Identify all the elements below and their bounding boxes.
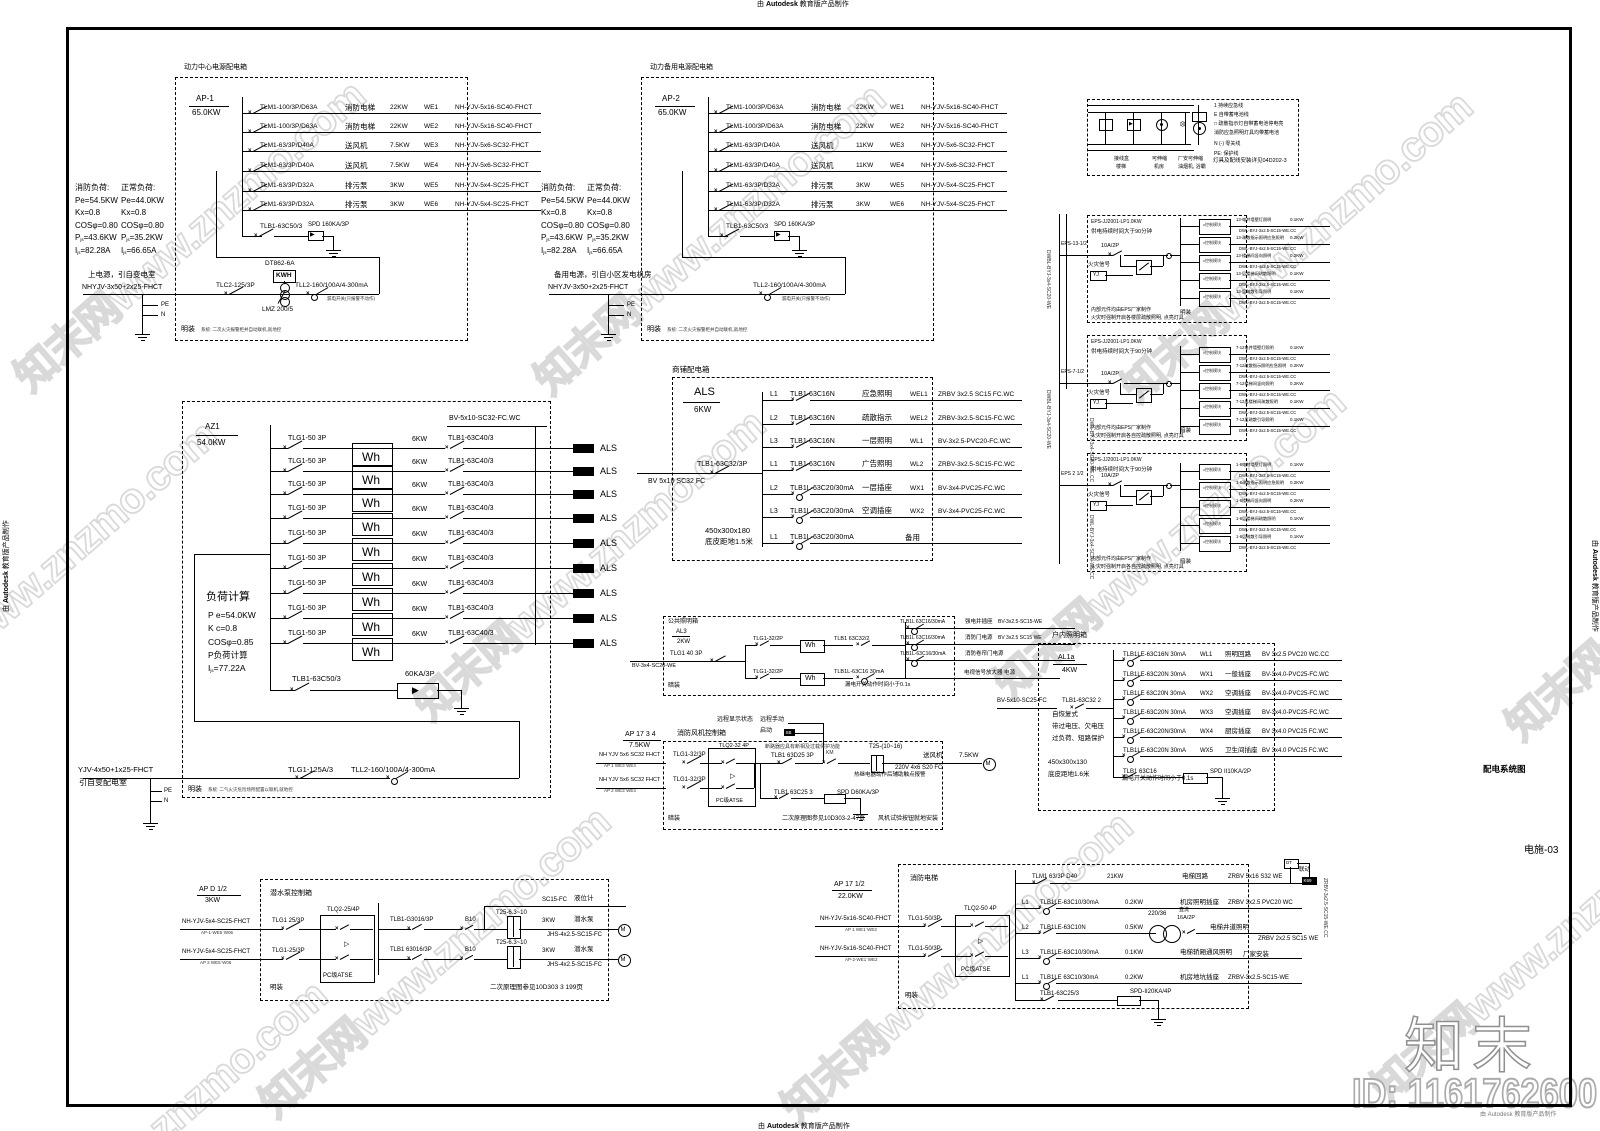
ATSE PC级 fan panel	[708, 748, 756, 807]
incoming wire 2 elevator	[815, 956, 925, 957]
wire row 9	[391, 643, 445, 644]
breaker TLB1-63C16N circuit WEL1	[770, 391, 778, 398]
breaker TLB1-63C32/3P	[697, 461, 747, 468]
pump branch 1	[378, 929, 411, 930]
riser line AZ1	[535, 427, 536, 645]
EPS panel EPS-7-1/2 enclosure	[1087, 335, 1247, 441]
EPS inverter module EPS 2 1/2	[1120, 485, 1121, 496]
bus AP-2	[708, 97, 709, 236]
wire row 4	[391, 518, 445, 519]
edge note bottom right	[1480, 1112, 1556, 1118]
EPS control module EPS 2 1/2 row 3	[1180, 507, 1199, 508]
breaker TLB1-63C40/3 row 5	[448, 530, 494, 537]
kWh meter row 1	[352, 443, 393, 466]
note AP-2	[647, 326, 661, 333]
breaker TLM1-100/3P/D63A circuit WE1	[260, 105, 317, 112]
EPS distribution bus EPS-13-1/2	[1180, 218, 1181, 306]
note AZ1	[188, 786, 202, 793]
breaker TLB1L 63C16/30mA AL3	[900, 620, 945, 625]
breaker TLG1-125A/3	[288, 766, 333, 774]
kWh meter row 3	[352, 489, 393, 512]
fire signal input EPS 2 1/2	[1088, 493, 1110, 499]
wire circuit WE5	[708, 191, 1007, 192]
kWh meter row 8	[352, 613, 393, 636]
kWh meter row 7	[352, 588, 393, 611]
wire row 1	[391, 448, 445, 449]
EPS control module EPS-7-1/2 row 2	[1180, 372, 1199, 373]
breaker TLB1-63C40/3 row 9	[448, 630, 494, 637]
feeder row 8 breaker TLG1-50 3P	[288, 605, 326, 612]
breaker TLB1LE-63C10N elevator row	[1022, 925, 1029, 931]
EPS circuit wire EPS-7-1/2 row 1	[1229, 354, 1330, 355]
breaker TLM1-63/3P/D40A circuit WE4	[260, 163, 314, 170]
ALS terminal row 2	[573, 467, 594, 476]
breaker TLB1-63C40/3 row 7	[448, 580, 494, 587]
ATSE PC级 elevator	[955, 915, 1010, 977]
incoming wire AP-2	[549, 294, 845, 295]
feeder row 6 breaker TLG1-50 3P	[288, 555, 326, 562]
feeder row 3 breaker TLG1-50 3P	[288, 481, 326, 488]
breaker TLB1-63C40/3 row 2	[448, 458, 494, 465]
EPS inverter module EPS-7-1/2	[1120, 383, 1121, 394]
kWh meter row 6	[352, 563, 393, 586]
bus AL3 outputs	[905, 622, 906, 678]
EPS control module EPS-7-1/2 row 3	[1180, 390, 1199, 391]
breaker TLB1-63C50/3 SPD feed AP-2	[726, 224, 768, 231]
wire circuit WE6	[242, 210, 541, 211]
panel 潜水泵控制箱 enclosure	[260, 879, 609, 1001]
title 电施-03	[1524, 846, 1558, 856]
breaker TLG1-50/3P elevator 2	[908, 946, 941, 952]
incoming wire AP-1	[83, 294, 379, 295]
ALS terminal row 6	[573, 564, 594, 573]
wire circuit WX2	[762, 517, 793, 518]
label AL1a	[1058, 654, 1074, 661]
edge note top	[757, 1, 849, 8]
breaker TLM1-63/3P/D40A circuit WE4	[726, 163, 780, 170]
wire circuit WEL2	[762, 424, 793, 425]
breaker TLB1 63C16 SPD feed AL1a	[1123, 769, 1157, 775]
load calc text AP-1	[75, 184, 109, 192]
wire AP-1 meter loop	[216, 171, 217, 257]
wire elevator row	[1015, 933, 1040, 934]
breaker TLB1-63C50/3 AZ1	[292, 675, 341, 683]
breaker TLB1-63C16N circuit WEL2	[770, 415, 778, 422]
motor M fan	[983, 758, 996, 771]
label AL3	[676, 629, 687, 635]
breaker TLB1LE-63C10/30mA elevator row	[1022, 950, 1029, 956]
label BV-5x10-SC32-FC.WC	[449, 415, 521, 422]
EPS circuit wire EPS 2 1/2 row 4	[1229, 525, 1330, 526]
breaker TLB1-63C16N circuit WL2	[770, 461, 778, 468]
breaker TLM1-100/3P/D63A circuit WE2	[260, 124, 317, 131]
thermal relay T25-(10~16)	[869, 744, 902, 750]
ground AP-1 SPD	[333, 242, 334, 250]
wire AL3 output	[905, 660, 1075, 661]
breaker TLB1L 63C16/30mA AL3	[900, 636, 945, 641]
breaker 10A/2P EPS-13-1/2	[1101, 244, 1119, 250]
label AP 17 3 4	[625, 731, 656, 738]
wire circuit WL2	[762, 470, 793, 471]
breaker TLG1-32/3P fan 1	[673, 752, 706, 758]
SPD 160KA/3P AP-2	[774, 222, 815, 228]
breaker TLB1-63C40/3 row 4	[448, 505, 494, 512]
label AP-1	[196, 95, 214, 103]
edge note left	[3, 520, 10, 612]
wire circuit WX3	[1113, 718, 1124, 719]
breaker 10A/2P EPS-7-1/2	[1101, 372, 1119, 378]
EPS control module EPS 2 1/2 row 2	[1180, 489, 1199, 490]
breaker TLB1-63C40/3 row 8	[448, 605, 494, 612]
panel AZ1 enclosure	[182, 401, 551, 798]
current transformers LMZ 200/5	[280, 283, 290, 293]
wire row 6	[391, 568, 445, 569]
incoming wire 1 pump	[180, 929, 283, 930]
legend symbol junction box	[1105, 112, 1106, 144]
EPS control module EPS-13-1/2 row 5	[1180, 298, 1199, 299]
EPS control module EPS 2 1/2 row 5	[1180, 543, 1199, 544]
EPS control module EPS-13-1/2 row 2	[1180, 244, 1199, 245]
label AP-2	[662, 95, 680, 103]
breaker TLB1-63C16N circuit WL1	[770, 438, 778, 445]
leakage breaker TLL2-160/100A/4-300mA AZ1	[351, 766, 435, 774]
breaker TLG1-25/3P pump 2	[272, 948, 305, 954]
panel 消防风机控制箱 enclosure	[663, 741, 943, 830]
incoming wire AZ1	[83, 778, 390, 779]
ALS terminal row 4	[573, 514, 594, 523]
breaker TLB1-63C32 2	[1062, 698, 1101, 704]
split AL3	[745, 645, 746, 678]
PE N ground AP-2	[608, 294, 609, 326]
EPS circuit wire EPS 2 1/2 row 3	[1229, 507, 1330, 508]
breaker TLB1LE-63C16N 30mA circuit WL1	[1123, 652, 1186, 658]
incoming wire 2 pump	[180, 959, 283, 960]
title 配电系统图	[1483, 765, 1526, 774]
EPS control module EPS-13-1/2 row 4	[1180, 280, 1199, 281]
fire signal input EPS-13-1/2	[1088, 263, 1110, 269]
PE N ground AP-1	[142, 294, 143, 326]
panel 消防电梯 enclosure	[898, 864, 1249, 1009]
SPD II10KA/2P AL1a	[1210, 769, 1251, 775]
ALS terminal row 9	[573, 639, 594, 648]
breaker TLM1-100/3P/D63A circuit WE1	[726, 105, 783, 112]
EPS circuit wire EPS-13-1/2 row 1	[1229, 226, 1330, 227]
dimension note ALS	[705, 527, 750, 535]
transformer 220/36	[1148, 911, 1166, 917]
interlock contact DT	[1284, 859, 1299, 869]
EPS circuit wire EPS 2 1/2 row 2	[1229, 489, 1330, 490]
wire AL3 output	[905, 644, 1075, 645]
notes fan panel	[668, 816, 680, 822]
SPD 160KA/3P AP-1	[308, 222, 349, 228]
breaker TLM1-63/3P/D40A circuit WE3	[260, 143, 314, 150]
panel ALS 商铺配电箱 enclosure	[672, 377, 933, 561]
interlock relay block	[1302, 877, 1317, 885]
wire circuit WE5	[242, 191, 541, 192]
label ALS	[694, 387, 715, 398]
breaker TLB1LE 63C10/30mA elevator row	[1022, 975, 1029, 981]
kWh meter row 5	[352, 538, 393, 561]
pump branch 2	[378, 959, 411, 960]
EPS panel EPS-13-1/2 enclosure	[1087, 215, 1247, 323]
wire circuit WL1	[1113, 660, 1124, 661]
kWh meter row 4	[352, 513, 393, 536]
wire circuit WE3	[242, 151, 541, 152]
EPS control module EPS 2 1/2 row 1	[1180, 471, 1199, 472]
EPS panel EPS 2 1/2 enclosure	[1087, 453, 1247, 572]
EPS circuit wire EPS-13-1/2 row 3	[1229, 262, 1330, 263]
wire AL3 output	[905, 628, 1075, 629]
breaker TLB1LE-63C20N 30mA circuit WX5	[1123, 748, 1186, 754]
fan output bus	[760, 763, 761, 798]
EPS control module EPS-7-1/2 row 1	[1180, 354, 1199, 355]
ALS terminal row 5	[573, 539, 594, 548]
note AL3	[668, 683, 680, 689]
breaker TLB1-63C40/3 row 3	[448, 481, 494, 488]
legend box enclosure	[1087, 99, 1299, 176]
AL3 branch 2 breaker TLG1 32/2P and meter	[745, 678, 757, 679]
ALS terminal row 1	[573, 444, 594, 453]
ATSE PC级 pump panel	[320, 915, 375, 983]
wire elevator row	[1015, 983, 1040, 984]
fan feeder row	[765, 745, 840, 750]
incoming wire AL1a	[997, 708, 1057, 709]
panel AL1a 户内照明箱 enclosure	[1038, 643, 1275, 811]
EPS circuit wire EPS-13-1/2 row 4	[1229, 280, 1330, 281]
wire circuit WE4	[242, 171, 541, 172]
EPS tap EPS-7-1/2	[1061, 370, 1084, 375]
wire circuit WE1	[708, 113, 1007, 114]
remote control cluster	[717, 717, 753, 723]
wire circuit WL1	[762, 447, 793, 448]
SPD 60KA/3P AZ1	[405, 670, 435, 678]
wire row 8	[391, 618, 445, 619]
EPS control module EPS-13-1/2 row 1	[1180, 226, 1199, 227]
breaker TLB1-63C40/3 row 1	[448, 435, 494, 442]
wire circuit 备用	[762, 543, 793, 544]
incoming wire 1 elevator	[815, 926, 925, 927]
wire circuit WX1	[1113, 680, 1124, 681]
EPS circuit wire EPS-7-1/2 row 5	[1229, 426, 1330, 427]
breaker TLM1-63/3P/D32A circuit WE5	[260, 183, 314, 190]
drawing border frame	[66, 27, 1572, 30]
breaker TLB1L-63C20/30mA circuit 备用	[770, 534, 778, 541]
breaker TLM1-100/3P/D63A circuit WE2	[726, 124, 783, 131]
breaker TLB1L-63C20/30mA circuit WX1	[770, 485, 778, 492]
breaker TLM1-63/3P/D32A circuit WE6	[260, 202, 314, 209]
feeder row 1 breaker TLG1-50 3P	[288, 435, 326, 442]
incoming wire AL3	[630, 661, 745, 662]
legend symbol ceiling lamp	[1161, 112, 1162, 144]
wire circuit WX5	[1113, 756, 1124, 757]
label AZ1	[205, 423, 220, 431]
bus AP-1	[242, 97, 243, 236]
legend symbol emergency fixture	[1198, 105, 1199, 145]
source text AP-1	[88, 271, 156, 279]
panel AL3 公共照明箱 enclosure	[663, 616, 955, 696]
leakage breaker TLL2-160/100A/4-300mA	[295, 283, 368, 290]
note elevator	[905, 993, 918, 1000]
legend symbol box2	[1133, 112, 1134, 144]
note AP-1	[181, 326, 195, 333]
notes AL1a	[1052, 712, 1078, 719]
EPS control module EPS-7-1/2 row 4	[1180, 408, 1199, 409]
edge note bottom	[758, 1123, 850, 1130]
wire circuit WX1	[762, 494, 793, 495]
motor M pump1	[618, 924, 631, 937]
wire circuit WE6	[708, 210, 1007, 211]
wire circuit WX2	[1113, 699, 1124, 700]
breaker TLC2-125/3P	[216, 283, 255, 290]
bus ALS	[762, 392, 763, 547]
wire circuit WE3	[708, 151, 1007, 152]
wire circuit WE2	[242, 132, 541, 133]
breaker TLB1-63C25/3 elevator SPD	[1040, 991, 1079, 997]
breaker 10A/2P EPS 2 1/2	[1101, 474, 1119, 480]
wire row 3	[391, 494, 445, 495]
bus AZ1	[270, 425, 271, 690]
breaker TLB1L-63C16/30mA AL3	[900, 652, 946, 657]
breaker TLB1LE-63C20N 30mA circuit WX3	[1123, 710, 1186, 716]
EPS distribution bus EPS 2 1/2	[1180, 463, 1181, 551]
ground fan SPD	[860, 806, 861, 814]
EPS tap EPS 2 1/2	[1061, 472, 1084, 477]
legend bus lines	[1088, 105, 1194, 106]
wire circuit WE4	[708, 171, 1007, 172]
wire elevator row	[1015, 958, 1040, 959]
source text AZ1	[78, 766, 153, 774]
ground AL1a SPD	[1222, 790, 1223, 798]
SPD-II20KA/4P elevator	[1130, 989, 1171, 995]
energy meter DT862-6A KWH	[265, 261, 295, 268]
breaker TLG1-32/3P fan 2	[673, 777, 706, 783]
panel AP-2 动力备用电源配电箱 enclosure	[641, 77, 934, 341]
fan SPD branch	[760, 798, 778, 799]
breaker TLB1-63C40/3 row 6	[448, 555, 494, 562]
EPS notes EPS-7-1/2	[1091, 426, 1151, 431]
breaker TLM1-63/3P/D32A circuit WE5	[726, 183, 780, 190]
fire signal input EPS-7-1/2	[1088, 391, 1110, 397]
contactor KM fan	[826, 751, 834, 756]
EPS feeder riser 1	[1059, 214, 1060, 564]
notes pump panel	[270, 985, 283, 992]
pump output bus	[378, 903, 379, 975]
ground AZ1 SPD	[461, 700, 462, 708]
EPS circuit wire EPS-7-1/2 row 2	[1229, 372, 1330, 373]
ground AP-2 SPD	[799, 242, 800, 250]
ground elevator SPD	[1158, 1011, 1159, 1019]
wire AP-2 meter loop	[682, 171, 683, 257]
incoming wire 1 fan panel	[596, 763, 666, 764]
EPS inverter module EPS-13-1/2	[1120, 255, 1121, 266]
breaker TLB1LE-63C10/30mA elevator row	[1022, 900, 1029, 906]
wire row 2	[391, 471, 445, 472]
incoming wire 2 fan panel	[596, 788, 666, 789]
EPS notes EPS-13-1/2	[1091, 308, 1151, 313]
EPS circuit wire EPS-13-1/2 row 2	[1229, 244, 1330, 245]
thermal relay T25-6.3~10 pump1	[496, 910, 527, 916]
AL3 branch 1 breaker TLG1-32/2P and meter	[745, 645, 757, 646]
EPS circuit wire EPS 2 1/2 row 5	[1229, 543, 1330, 544]
legend symbol luminaire	[1185, 112, 1186, 144]
breaker TLB1LE-63C20N 30mA circuit WX1	[1123, 672, 1186, 678]
feed loop AZ1	[194, 554, 195, 721]
wire row 7	[391, 593, 445, 594]
wire row 5	[391, 543, 445, 544]
label AP 17 1/2	[834, 881, 865, 888]
elevator main circuit TLM1 63/3P D40	[1032, 874, 1077, 880]
EPS distribution bus EPS-7-1/2	[1180, 346, 1181, 434]
feeder row 5 breaker TLG1-50 3P	[288, 530, 326, 537]
feeder row 7 breaker TLG1-50 3P	[288, 580, 326, 587]
ALS terminal row 8	[573, 614, 594, 623]
EPS circuit wire EPS 2 1/2 row 1	[1229, 471, 1330, 472]
EPS control module EPS 2 1/2 row 4	[1180, 525, 1199, 526]
PE N ground AZ1	[150, 778, 151, 815]
EPS control module EPS-7-1/2 row 5	[1180, 426, 1199, 427]
EPS notes EPS 2 1/2	[1091, 557, 1151, 562]
breaker TLB1LE-63C20N/30mA circuit WX4	[1123, 729, 1186, 735]
source text AP-2	[554, 271, 652, 279]
label AP D 1/2	[199, 886, 227, 893]
wire elevator row	[1015, 908, 1040, 909]
breaker TLB1L-63C20/30mA circuit WX2	[770, 508, 778, 515]
feeder row 9 breaker TLG1-50 3P	[288, 630, 326, 637]
legend captions	[1114, 157, 1129, 162]
wire circuit WE2	[708, 132, 1007, 133]
ALS terminal row 7	[573, 589, 594, 598]
feeder row 2 breaker TLG1-50 3P	[288, 458, 326, 465]
legend text column	[1214, 104, 1243, 109]
breaker TLG1 25/3P pump 1	[272, 918, 304, 924]
EPS circuit wire EPS-7-1/2 row 3	[1229, 390, 1330, 391]
breaker TLG1-50/3P elevator 1	[908, 916, 941, 922]
breaker TLB1-63C50/3 SPD feed AP-1	[260, 224, 302, 231]
thermal relay T25-6.3~10 pump2	[496, 940, 527, 946]
kWh meter row 2	[352, 466, 393, 489]
bus AL1a	[1113, 650, 1114, 778]
load calc AZ1	[206, 592, 250, 603]
incoming wire ALS	[637, 473, 762, 474]
EPS feeder riser 2	[1066, 214, 1067, 389]
EPS circuit wire EPS-7-1/2 row 4	[1229, 408, 1330, 409]
breaker TLM1-63/3P/D32A circuit WE6	[726, 202, 780, 209]
feeder row 4 breaker TLG1-50 3P	[288, 505, 326, 512]
breaker TLM1-63/3P/D40A circuit WE3	[726, 143, 780, 150]
motor M pump2	[618, 954, 631, 967]
wire circuit WE1	[242, 113, 541, 114]
panel AP-1 动力中心电源配电箱 enclosure	[175, 77, 468, 341]
leakage breaker TLL2-160/100A/4-300mA	[753, 283, 826, 290]
bus elevator	[1015, 870, 1016, 1000]
EPS tap EPS-13-1/2	[1061, 242, 1087, 247]
load calc text AP-2	[541, 184, 575, 192]
edge note right	[1591, 540, 1598, 632]
kWh meter row 9	[352, 638, 393, 661]
breaker TLB1LE 63C20N 30mA circuit WX2	[1123, 691, 1186, 697]
wire circuit WEL1	[762, 400, 793, 401]
level gauge line SC15-FC 液位计	[484, 906, 626, 907]
ALS terminal row 3	[573, 490, 594, 499]
EPS circuit wire EPS-13-1/2 row 5	[1229, 298, 1330, 299]
wire circuit WX4	[1113, 737, 1124, 738]
EPS control module EPS-13-1/2 row 3	[1180, 262, 1199, 263]
